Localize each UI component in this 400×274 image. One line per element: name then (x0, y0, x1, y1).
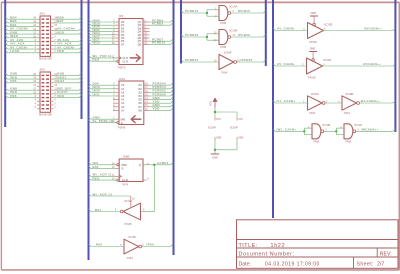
ground symbol GND (power section) (211, 154, 219, 159)
title block text Sheet (357, 262, 385, 268)
wire IC5 output Q1 net PCRD6 (150, 18, 174, 22)
wire SV1 right pin 7 net /PLACE (54, 38, 82, 42)
gate IC14B 7400 NAND (308, 123, 330, 144)
svg-text:1: 1 (308, 126, 310, 129)
svg-text:RES: RES (93, 58, 100, 62)
svg-text:7400: 7400 (220, 45, 227, 49)
wire IC13D output net AVCAEN++ (322, 27, 395, 31)
wire IC5 input D4 net IB34 (89, 31, 116, 35)
svg-text:MA10-2W: MA10-2W (39, 56, 52, 60)
wire IC14B to IC14C tied inputs (324, 128, 344, 134)
wire IC5 input D7 net IB10 (89, 41, 116, 45)
svg-text:IC9B: IC9B (123, 155, 129, 159)
wire IC10 output B1 net PCRD04 (150, 82, 173, 86)
wire IC19F output net IPCB07 (237, 58, 266, 62)
svg-text:PCRD26: PCRD26 (185, 33, 199, 37)
svg-text:IPCB07: IPCB07 (241, 58, 253, 62)
wire SV2 right pin 9 net CLK0T (54, 90, 82, 94)
svg-text:D7: D7 (121, 42, 125, 46)
svg-text:CLK: CLK (123, 56, 129, 60)
wire IC13C enable net WL_ACR (89, 192, 131, 196)
svg-text:VSS: VSS (10, 94, 17, 98)
svg-text:PA0: PA0 (96, 243, 103, 247)
wire SV1 left pin 18 net DB6 (5, 19, 37, 23)
svg-text:74273: 74273 (118, 65, 126, 69)
wire IC5 output Q2 net PCRD5 (150, 22, 174, 26)
svg-text:A2: A2 (121, 90, 125, 94)
wire IC19A input net /FL_CAEN+ (273, 99, 308, 103)
svg-text:ACRD1: ACRD1 (157, 161, 169, 165)
svg-text:A6: A6 (121, 105, 125, 109)
svg-text:Sheet:: Sheet: (357, 262, 374, 268)
svg-text:6: 6 (35, 99, 37, 102)
svg-text:GND: GND (212, 156, 218, 159)
svg-text:A4: A4 (121, 98, 125, 102)
wire IC10 input A1 net IB16 (89, 85, 116, 89)
svg-text:3: 3 (326, 128, 328, 131)
gate IC19F 7404 inverter (214, 51, 241, 75)
svg-text:8: 8 (147, 178, 149, 181)
svg-text:7404: 7404 (127, 256, 134, 260)
svg-text:14: 14 (33, 84, 36, 87)
bus B5 (gate column feed) (180, 0, 182, 64)
svg-text:IB10: IB10 (93, 41, 101, 45)
wire SV1 left pin 8 net AV_ACK (5, 38, 37, 42)
wire IC9B Q output net ACRD1 (147, 161, 174, 166)
svg-text:74125: 74125 (308, 76, 316, 80)
svg-text:74125: 74125 (124, 222, 132, 226)
wire SV1 right pin 1 net VDD (54, 49, 82, 53)
svg-text:IC13D: IC13D (325, 23, 333, 27)
gate IC13C 74125 tri-state buffer (mirrored) (115, 196, 145, 226)
wire SV1 left pin 4 net AV_CAEN+ (5, 45, 37, 49)
wire IC14A output net IPCB15 (231, 9, 266, 13)
wire IC10 output B4 net PCRD00 (150, 92, 173, 96)
svg-text:74125: 74125 (309, 40, 317, 44)
wire IC9B PRE net IB0 (89, 161, 116, 165)
svg-text:74245: 74245 (118, 125, 126, 129)
wire SV1 right pin 11 net VDD (54, 30, 82, 34)
wire IC13D input net AV_CAEN+ (273, 27, 308, 31)
wire SV2 left pin 20 net GND (5, 72, 37, 76)
svg-text:4: 4 (340, 126, 342, 129)
wire IC5 input D3 net IB31 (89, 28, 116, 32)
wire SV2 right pin 15 net /FS# (54, 79, 82, 83)
title block text REV (380, 251, 392, 257)
svg-text:Q: Q (139, 164, 141, 167)
svg-text:SV1: SV1 (40, 11, 46, 15)
svg-text:B2: B2 (139, 87, 143, 91)
wire IC9B CLR net RES (89, 176, 117, 180)
svg-text:A5: A5 (121, 101, 125, 105)
title block text Date (239, 262, 320, 268)
title block (237, 220, 399, 268)
wire SV2 right pin 19 net GND (54, 72, 82, 76)
wire IC15C input net PA0 (89, 243, 125, 247)
wire SV2 left pin 8 net VSS (5, 94, 37, 98)
wire SV1 left pin 2 net LOAD (5, 49, 37, 53)
svg-text:IC19B: IC19B (346, 92, 354, 96)
svg-text:D: D (122, 167, 124, 171)
wire SV1 right pin 3 net AV_CAEN+ (54, 45, 82, 49)
svg-text:10: 10 (132, 198, 135, 201)
wire SV2 left pin 10 net VDD (5, 90, 37, 94)
wire IC10 input A0 net D04 (89, 82, 116, 86)
svg-text:IC13A: IC13A (324, 58, 332, 62)
wire IC10 output B5 net GND (150, 96, 173, 100)
wire SV1 right pin 19 net DB8 (54, 16, 82, 20)
wire IC10 G enable net SL_PCR2 (89, 119, 117, 123)
wire IC5 input D5 net IB37 (89, 34, 116, 38)
wire SV1 left pin 10 net /RES (5, 34, 37, 38)
svg-text:PRE: PRE (122, 163, 128, 167)
bus B4 (right of IC column) (173, 0, 175, 255)
wire SV2 right pin 17 net ABG1 (54, 75, 82, 79)
supply symbol VCC (210, 98, 218, 108)
svg-text:B5: B5 (139, 98, 143, 102)
svg-text:IC19P: IC19P (208, 126, 216, 130)
svg-text:IPCB15: IPCB15 (238, 9, 250, 13)
svg-text:9: 9 (54, 35, 56, 38)
wire IC10 output B7 net GND (150, 103, 173, 107)
gate IC13D 74125 buffer (303, 12, 332, 44)
title block text Document Number (239, 251, 295, 257)
svg-text:VCC: VCC (216, 118, 221, 121)
wire IC10 output B3 net PCRD02 (150, 89, 173, 93)
svg-text:B7: B7 (139, 105, 143, 109)
wire SV1 left pin 20 net DB4 (5, 16, 37, 20)
wire IC14D input net PCRD26 (181, 33, 219, 40)
svg-text:SV2: SV2 (40, 67, 46, 71)
svg-text:Document Number:: Document Number: (239, 251, 295, 257)
wire junction to gate IC13C input (141, 165, 155, 212)
svg-text:AVCAEN++: AVCAEN++ (364, 27, 382, 31)
wire IC5 input D6 net IB17 (89, 38, 116, 42)
svg-text:IC10: IC10 (119, 77, 125, 81)
svg-text:WL_ACR 13: WL_ACR 13 (93, 192, 113, 196)
wire IC13A input net AV_CAEN+ (273, 62, 307, 66)
svg-text:7404: 7404 (309, 111, 316, 115)
svg-text:A0: A0 (121, 83, 125, 87)
svg-text:B01: B01 (95, 208, 101, 212)
svg-text:AVCAEN++: AVCAEN++ (363, 62, 381, 66)
wire IC13C output net B01 (89, 208, 121, 212)
svg-text:3: 3 (54, 102, 56, 105)
wire IC5 input D2 net IB26 (89, 25, 116, 29)
connector SV2 (33, 67, 57, 116)
wire IC5 output Q8 net PCRD15 (150, 41, 174, 45)
wire SV1 right pin 5 net /AV_ACK (54, 42, 82, 46)
title block text TITLE (239, 243, 286, 249)
wire IC14C output net /WCAEN++ (356, 128, 396, 132)
wire IC9B D net B01 (89, 165, 116, 169)
connector SV1 (33, 11, 57, 60)
wire IC19A to IC19B (325, 102, 342, 104)
wire IC10 output B2 net PCRD13 (150, 85, 173, 89)
wire IC19F input net PCRD07 (181, 58, 219, 62)
wire SV1 left pin 12 net GND (5, 30, 37, 34)
wire IC10 input A3 net IB31 (89, 92, 116, 96)
svg-text:A1: A1 (121, 87, 125, 91)
gate IC13A 74125 buffer (302, 47, 331, 79)
wire IC5 input D0 net IB04 (89, 18, 116, 22)
svg-text:B4: B4 (139, 94, 143, 98)
svg-text:VSS: VSS (10, 79, 17, 83)
wire SV2 left pin 16 net VSS (5, 79, 37, 83)
svg-text:GND: GND (238, 137, 244, 140)
gate IC14A 7400 NAND (215, 5, 237, 26)
svg-text:REV:: REV: (380, 251, 392, 257)
bus B2 (right of SV connectors) (81, 0, 83, 119)
svg-text:4: 4 (35, 102, 37, 105)
wire IC13A output net AVCAEN++ (321, 62, 395, 66)
svg-text:CLR: CLR (123, 59, 129, 63)
gate IC14D 7400 NAND (214, 29, 238, 50)
svg-text:7404: 7404 (221, 71, 228, 75)
svg-text:1: 1 (54, 106, 56, 109)
svg-text:Date:: Date: (239, 262, 251, 268)
svg-text:RES: RES (93, 176, 100, 180)
svg-text:/WL_CAEN+: /WL_CAEN+ (277, 128, 297, 132)
svg-text:6: 6 (358, 128, 360, 131)
svg-text:B8: B8 (139, 108, 143, 112)
svg-text:7400: 7400 (220, 21, 227, 25)
svg-text:2: 2 (35, 106, 37, 109)
svg-text:IB31: IB31 (93, 92, 101, 96)
svg-text:B01: B01 (93, 165, 99, 169)
svg-text:GND: GND (311, 12, 317, 15)
svg-text:PCRD5: PCRD5 (152, 22, 164, 26)
bus B8 (far right) (394, 0, 396, 132)
svg-text:A3: A3 (121, 94, 125, 98)
svg-text:DIR: DIR (121, 117, 126, 121)
wire IC10 output B8 net VDD (150, 107, 173, 111)
svg-text:IC14B: IC14B (323, 123, 331, 127)
wire SV1 right pin 17 net DB7 (54, 19, 82, 23)
svg-text:LOAD: LOAD (10, 49, 20, 53)
svg-text:IC16P: IC16P (230, 126, 238, 130)
svg-text:PCRD07: PCRD07 (185, 58, 199, 62)
svg-text:IC14C: IC14C (355, 123, 363, 127)
gate IC14C 7400 NAND (340, 123, 362, 144)
wire power pins to ground (214, 140, 237, 154)
svg-text:VDD: VDD (57, 49, 64, 53)
wire IC5 output Q7 net PCRD7 (150, 38, 174, 42)
svg-text:PCRD15: PCRD15 (152, 41, 166, 45)
wire SV1 left pin 16 net DB1 (5, 23, 37, 27)
bus B1 (left of SV connectors) (4, 0, 6, 127)
svg-text:GND: GND (310, 47, 316, 50)
bus B7 (right section feed) (272, 0, 274, 218)
gate IC19A 7404 inverter (303, 92, 328, 115)
svg-text:2/7: 2/7 (377, 262, 384, 268)
svg-text:VCC: VCC (238, 118, 243, 121)
svg-text:CLR: CLR (122, 178, 128, 182)
svg-text:7400: 7400 (313, 139, 320, 143)
svg-text:7474: 7474 (122, 182, 129, 186)
wire SV2 right pin 11 net SIR_OFF (54, 87, 82, 91)
svg-text:IPCB26: IPCB26 (238, 33, 250, 37)
svg-text:DB7: DB7 (57, 19, 64, 23)
IC IC9B 7474 flip-flop (112, 155, 149, 187)
svg-text:MA10-2W: MA10-2W (39, 112, 52, 116)
svg-text:AV_CAEN+: AV_CAEN+ (277, 62, 295, 66)
wire IC14D output net IPCB26 (231, 33, 266, 37)
svg-text:VCC: VCC (210, 101, 213, 106)
wire SV2 left pin 12 net GND (5, 87, 37, 91)
svg-text:IC14D: IC14D (230, 29, 238, 33)
IC IC10 74245 transceiver (112, 77, 150, 130)
svg-text:/FL_CAEN+: /FL_CAEN+ (277, 99, 296, 103)
svg-text:/PA0: /PA0 (147, 243, 155, 247)
svg-text:5: 5 (54, 99, 56, 102)
wire IC14A input net PCRD15 (181, 9, 219, 16)
svg-text:7404: 7404 (344, 111, 351, 115)
wire IC5 clear net RES (89, 58, 117, 62)
svg-text:9: 9 (143, 209, 145, 212)
bus B6 (gate outputs) (265, 0, 267, 66)
svg-text:VDD: VDD (57, 30, 64, 34)
svg-text:IC5: IC5 (119, 14, 124, 18)
svg-text:GND: GND (216, 137, 222, 140)
svg-text:7400: 7400 (345, 139, 352, 143)
wire IC10 input A2 net IB26 (89, 89, 116, 93)
wire SV1 left pin 14 net AV_CAEN# (5, 27, 37, 31)
svg-text:IC19A: IC19A (311, 92, 319, 96)
svg-text:B1: B1 (139, 83, 143, 87)
wire VCC to power pins (214, 108, 237, 118)
svg-text:/WCAEN++: /WCAEN++ (361, 128, 379, 132)
wire SV1 right pin 13 net AV_CAEN# (54, 27, 82, 31)
svg-text:IC14A: IC14A (230, 5, 238, 9)
svg-text:VDD: VDD (153, 107, 160, 111)
svg-text:/FLCAEN++: /FLCAEN++ (361, 99, 380, 103)
svg-text:04.03.2019 17:09:00: 04.03.2019 17:09:00 (265, 262, 320, 268)
wire IC9B CLK net WL_ACR (89, 173, 116, 177)
svg-text:Q8: Q8 (138, 42, 142, 46)
wire IC10 DIR net GND (89, 116, 116, 120)
power part IC19P (208, 118, 222, 141)
svg-text:A7: A7 (121, 108, 125, 112)
gate IC19B 7404 inverter (338, 92, 362, 115)
wire SV1 left pin 6 net /AV_ACK (5, 42, 37, 46)
wire IC15C output net /PA0 (142, 243, 173, 247)
svg-text:SL_PCR2 19: SL_PCR2 19 (93, 119, 114, 123)
wire SV2 right pin 7 net VDD (54, 94, 82, 98)
svg-text:AV_CAEN+: AV_CAEN+ (277, 27, 295, 31)
svg-text:B6: B6 (139, 101, 143, 105)
svg-text:/FS#: /FS# (57, 79, 65, 83)
wire IC5 clock net WL_PCR (89, 54, 116, 58)
gate IC15C 7404 inverter (120, 235, 144, 260)
wire IC19B output net /FLCAEN++ (359, 99, 395, 103)
svg-text:TITLE:: TITLE: (239, 243, 258, 249)
wire IC10 output B6 net VDD (150, 100, 173, 104)
svg-text:PCRD15: PCRD15 (185, 9, 199, 13)
svg-text:1h22: 1h22 (271, 243, 286, 249)
svg-text:B3: B3 (139, 90, 143, 94)
svg-text:IC19F: IC19F (224, 51, 232, 55)
power part IC16P (230, 118, 244, 141)
svg-text:8: 8 (115, 209, 117, 212)
wire SV2 left pin 18 net VDD (5, 75, 37, 79)
wire IC14B input net /WL_CAEN+ (273, 128, 312, 135)
svg-text:VDD: VDD (57, 94, 64, 98)
bus B3 (left of IC column) (88, 0, 90, 260)
IC IC5 74273 octal register (112, 14, 150, 69)
svg-text:IC15C: IC15C (129, 235, 137, 239)
svg-text:G: G (121, 121, 123, 125)
wire IC5 input D1 net IB16 (89, 22, 116, 26)
